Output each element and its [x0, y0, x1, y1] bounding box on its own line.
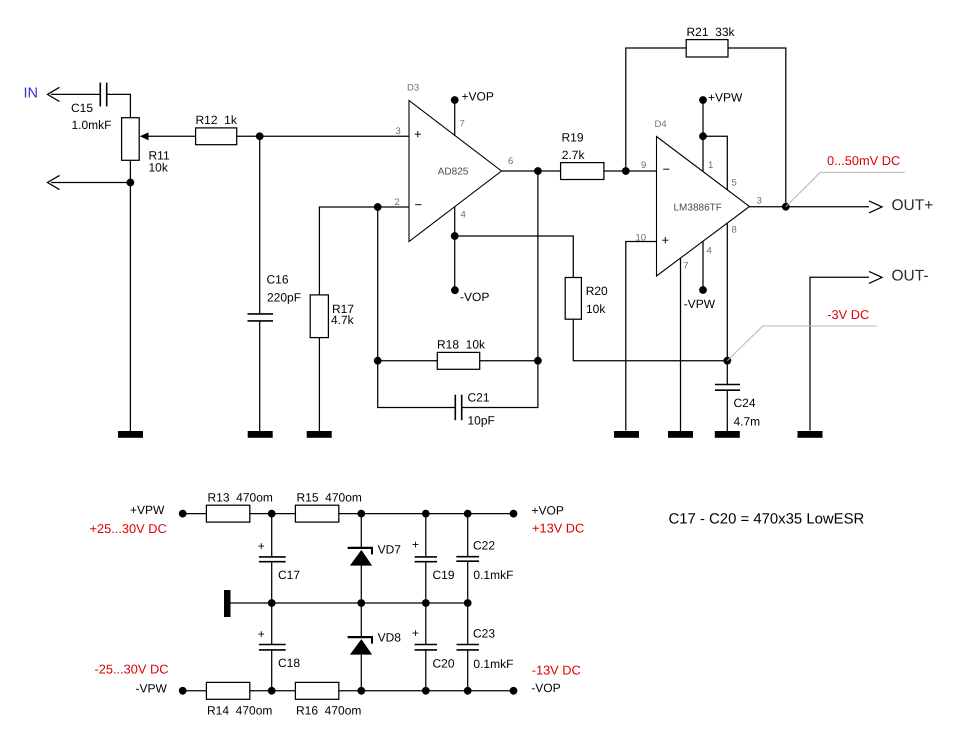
resistor R14 — [206, 682, 272, 717]
svg-text:-VPW: -VPW — [684, 297, 716, 311]
ground 4 — [614, 431, 639, 438]
svg-text:1.0mkF: 1.0mkF — [72, 118, 112, 132]
node pin1/pin5 junction — [699, 132, 707, 140]
input arrow — [48, 87, 60, 101]
callout -3V DC — [727, 307, 876, 361]
svg-text:C18: C18 — [278, 656, 300, 670]
svg-text:C20: C20 — [433, 656, 455, 670]
svg-text:OUT+: OUT+ — [892, 197, 934, 214]
capacitor C18 — [258, 603, 301, 691]
svg-text:D3: D3 — [407, 83, 419, 94]
callout 0...50mV DC — [786, 153, 905, 207]
wire IN to C15 — [51, 93, 100, 95]
svg-text:-VOP: -VOP — [460, 290, 489, 304]
node +VOP terminal — [451, 90, 494, 104]
node +VPW terminal — [699, 91, 743, 105]
resistor R16 — [295, 682, 361, 717]
resistor R18 — [437, 338, 486, 370]
node R12/C16 — [256, 132, 264, 140]
svg-text:0...50mV DC: 0...50mV DC — [827, 153, 900, 168]
note C17-C20 — [669, 511, 865, 527]
wire R17 top to pin2 — [319, 207, 409, 295]
capacitor C24 — [715, 361, 760, 432]
ground 6 — [715, 431, 740, 438]
OUT+ arrow — [869, 197, 933, 214]
OUT- arrow — [869, 268, 929, 285]
svg-text:R13 470om: R13 470om — [208, 491, 273, 505]
output tap arrow — [48, 175, 60, 189]
svg-text:+: + — [662, 233, 670, 248]
svg-text:+: + — [412, 538, 419, 552]
svg-text:-3V DC: -3V DC — [827, 307, 869, 322]
svg-text:1: 1 — [708, 160, 713, 171]
svg-text:D4: D4 — [655, 119, 667, 130]
wire feedback right down — [728, 48, 786, 207]
node -VOP output terminal — [510, 662, 581, 695]
svg-text:C19: C19 — [433, 568, 455, 582]
resistor R21 — [686, 25, 735, 57]
svg-text:-VOP: -VOP — [531, 681, 560, 695]
svg-text:+VPW: +VPW — [130, 503, 165, 517]
capacitor C16 — [248, 272, 302, 321]
svg-text:R20: R20 — [586, 284, 608, 298]
diode VD7 — [348, 514, 402, 603]
svg-text:10pF: 10pF — [468, 414, 495, 428]
svg-text:9: 9 — [641, 160, 646, 171]
svg-text:−: − — [415, 197, 423, 212]
node C17 top — [268, 510, 276, 518]
wire wiper to R12 — [148, 135, 196, 137]
node pin2 — [374, 203, 382, 211]
svg-text:+: + — [258, 539, 265, 553]
wire R14 to R16 — [250, 690, 296, 692]
wire pin10 to ground — [626, 242, 657, 431]
wire R18 to right node — [480, 360, 538, 362]
svg-text:4: 4 — [461, 210, 466, 221]
wire +VPW to R13 — [183, 513, 207, 515]
svg-text:-13V DC: -13V DC — [532, 662, 581, 677]
common terminal bar — [224, 590, 231, 617]
wire R11 bottom to ground — [129, 160, 131, 432]
svg-text:−: − — [663, 162, 671, 177]
resistor R12 — [196, 113, 238, 145]
node C20 bottom rail — [422, 687, 430, 695]
node IN label — [24, 85, 39, 101]
ground 1 — [118, 431, 143, 438]
svg-text:R12 1k: R12 1k — [196, 113, 238, 127]
svg-text:+: + — [414, 127, 422, 142]
wire middle rail — [231, 602, 468, 604]
wire +VPW to pin1 — [702, 100, 704, 172]
node C19 bottom — [422, 599, 430, 607]
wire R17 bottom to ground — [318, 338, 320, 432]
wire C16 drop — [259, 136, 261, 314]
node pin9 — [622, 167, 630, 175]
op-amp U-D4 LM3886TF — [636, 119, 762, 276]
wire junction to pin5 — [703, 136, 727, 190]
svg-text:+25...30V DC: +25...30V DC — [90, 521, 167, 536]
resistor R13 — [206, 491, 272, 523]
wire feedback left up — [626, 48, 686, 171]
svg-text:4.7m: 4.7m — [734, 415, 761, 429]
capacitor C21 — [455, 391, 495, 428]
wire pin4 to -VPW — [702, 241, 704, 290]
svg-text:R16 470om: R16 470om — [296, 703, 361, 717]
wire pin4 to -VOP — [454, 207, 456, 290]
wire R12 to pin3 — [237, 135, 409, 137]
svg-text:+: + — [412, 626, 419, 640]
OUT- wire — [810, 277, 869, 430]
svg-text:+VPW: +VPW — [708, 91, 743, 105]
svg-text:10k: 10k — [149, 161, 169, 175]
wire LM3886 output — [750, 206, 870, 208]
ground 5 — [668, 431, 693, 438]
svg-text:8: 8 — [732, 224, 737, 235]
node VD7 bottom — [357, 599, 365, 607]
svg-text:4.7k: 4.7k — [331, 313, 355, 327]
wire pin7 to ground — [680, 258, 682, 432]
svg-text:LM3886TF: LM3886TF — [674, 203, 722, 214]
op-amp U-D3 AD825 — [395, 83, 514, 242]
resistor R15 — [295, 491, 361, 523]
svg-text:0.1mkF: 0.1mkF — [473, 657, 513, 671]
ground 2 — [248, 431, 273, 438]
wire pin7 to +VOP — [454, 100, 456, 136]
wire pin4 junction to R20 — [455, 236, 574, 278]
svg-text:R19: R19 — [562, 130, 584, 144]
svg-text:3: 3 — [757, 196, 762, 207]
node R11 bottom — [126, 179, 134, 187]
svg-text:C23: C23 — [473, 626, 495, 640]
svg-text:VD7: VD7 — [378, 543, 402, 557]
capacitor C23 — [457, 603, 514, 691]
svg-text:4: 4 — [707, 246, 712, 257]
ground 7 — [798, 431, 823, 438]
potentiometer R11 — [122, 118, 170, 175]
node VD8 bottom rail — [357, 687, 365, 695]
node C24 — [723, 357, 731, 365]
svg-text:+: + — [258, 627, 265, 641]
svg-text:+VOP: +VOP — [462, 90, 494, 104]
node C23 bottom rail — [464, 687, 472, 695]
svg-text:C17 - C20 = 470x35 LowESR: C17 - C20 = 470x35 LowESR — [669, 511, 865, 527]
node C19 top — [422, 510, 430, 518]
svg-text:R18 10k: R18 10k — [437, 338, 486, 352]
wire R19 to pin9 — [604, 170, 657, 172]
svg-text:R15 470om: R15 470om — [297, 491, 362, 505]
svg-text:0.1mkF: 0.1mkF — [473, 568, 513, 582]
svg-text:VD8: VD8 — [378, 630, 402, 644]
wire to R18 — [378, 360, 438, 362]
svg-text:3: 3 — [396, 126, 401, 137]
resistor R17 — [310, 295, 354, 338]
capacitor C22 — [456, 514, 513, 603]
capacitor C17 — [258, 514, 301, 603]
svg-text:C21: C21 — [468, 391, 490, 405]
node R18 left — [374, 357, 382, 365]
node VD7 top — [357, 510, 365, 518]
wire C21 left branch — [378, 361, 456, 408]
node C22 bottom — [464, 599, 472, 607]
capacitor C20 — [412, 603, 455, 691]
svg-text:2.7k: 2.7k — [562, 148, 586, 162]
svg-text:7: 7 — [460, 119, 465, 130]
wire R20 bottom to C24 node — [573, 319, 727, 361]
wire R15 to +VOP — [339, 513, 514, 515]
wire C16 to ground — [259, 321, 261, 432]
capacitor C19 — [412, 514, 455, 603]
svg-text:+13V DC: +13V DC — [532, 521, 584, 536]
diode VD8 — [348, 603, 402, 691]
svg-text:C16: C16 — [267, 272, 289, 286]
resistor R20 — [565, 278, 608, 320]
node AD825 output — [534, 167, 542, 175]
svg-text:10k: 10k — [586, 302, 606, 316]
node -VPW terminal — [684, 286, 716, 311]
wire C15 to R11 top — [107, 94, 131, 117]
node C18 bottom — [268, 687, 276, 695]
svg-text:2: 2 — [395, 197, 400, 208]
svg-text:IN: IN — [24, 85, 39, 101]
wire output node down to R18 — [537, 171, 539, 361]
svg-text:C24: C24 — [734, 396, 756, 410]
node C22 top — [464, 510, 472, 518]
svg-text:-VPW: -VPW — [136, 681, 168, 695]
wire R13 to R15 — [250, 513, 296, 515]
node output — [782, 203, 790, 211]
node -VOP terminal — [451, 286, 489, 304]
svg-text:R14 470om: R14 470om — [207, 703, 272, 717]
capacitor C15 — [71, 83, 112, 132]
wire AD825 output — [502, 170, 561, 172]
svg-text:OUT-: OUT- — [892, 268, 929, 285]
wire pin8 down — [726, 223, 728, 361]
svg-text:AD825: AD825 — [438, 166, 469, 177]
svg-text:C15: C15 — [71, 101, 93, 115]
R11 wiper arrow — [140, 132, 149, 140]
node +VOP output terminal — [510, 503, 585, 535]
resistor R19 — [561, 130, 604, 179]
node R18 right — [534, 357, 542, 365]
svg-text:5: 5 — [732, 178, 737, 189]
svg-text:6: 6 — [508, 156, 513, 167]
svg-text:C17: C17 — [278, 568, 300, 582]
wire C21 right branch — [462, 361, 538, 408]
wire pin2 node down — [377, 207, 379, 361]
svg-text:220pF: 220pF — [267, 290, 301, 304]
node pin4 junction — [451, 232, 459, 240]
svg-text:C22: C22 — [473, 538, 495, 552]
ground 3 — [307, 431, 332, 438]
wire R16 to -VOP — [339, 690, 514, 692]
node +VPW input terminal — [90, 503, 187, 536]
wire tap arrow to R11 bottom — [51, 182, 130, 184]
svg-text:+VOP: +VOP — [532, 503, 564, 517]
node -VPW input terminal — [95, 662, 187, 696]
svg-text:R21 33k: R21 33k — [687, 25, 736, 39]
node C17 bottom — [268, 599, 276, 607]
svg-text:7: 7 — [683, 261, 688, 272]
wire -VPW to R14 — [183, 690, 207, 692]
svg-text:-25...30V DC: -25...30V DC — [95, 662, 169, 677]
